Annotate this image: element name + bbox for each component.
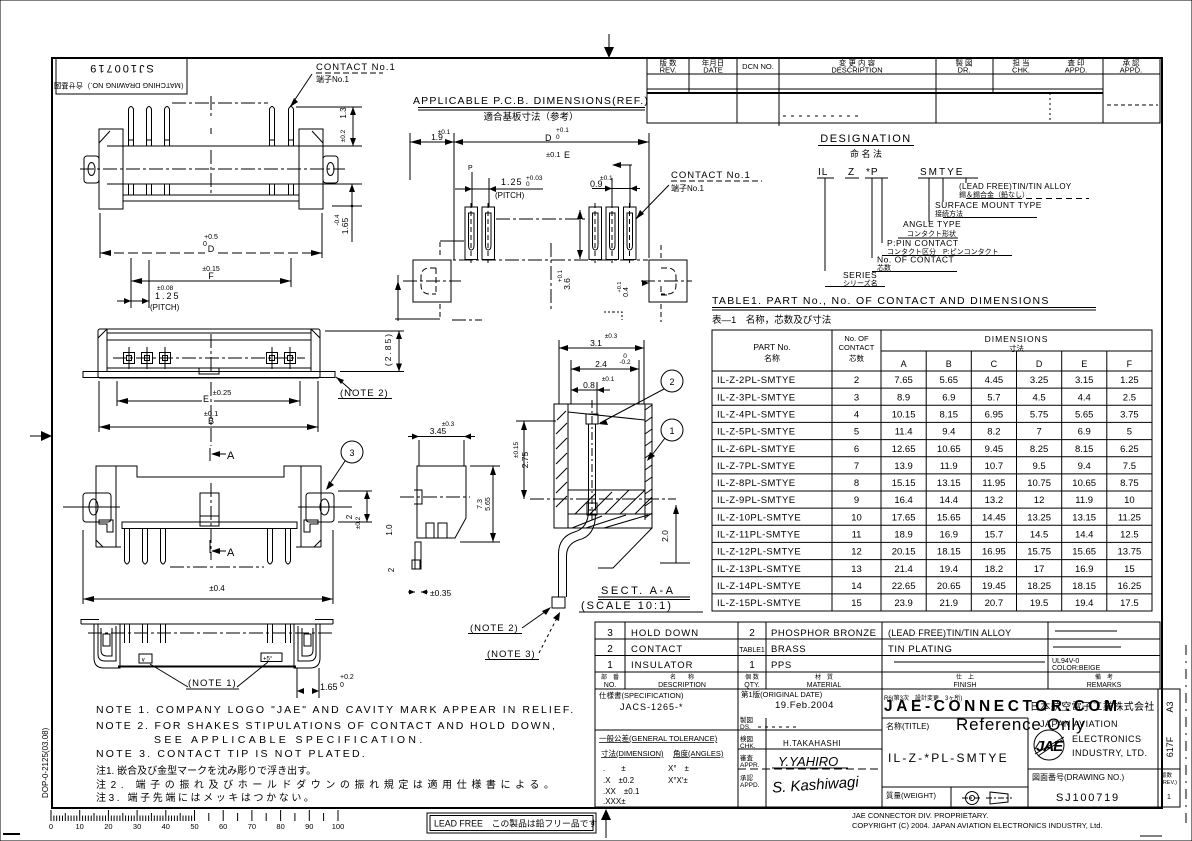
svg-text:IL-Z-9PL-SMTYE: IL-Z-9PL-SMTYE [717, 495, 795, 506]
pads [465, 203, 636, 263]
svg-text:寸法: 寸法 [1009, 343, 1025, 353]
svg-text:17.65: 17.65 [892, 512, 916, 523]
svg-text:(NOTE 2): (NOTE 2) [340, 388, 389, 399]
svg-text:接続方法: 接続方法 [935, 209, 963, 218]
svg-text:(NOTE 2): (NOTE 2) [470, 623, 519, 634]
svg-text:CONTACT No.1: CONTACT No.1 [671, 170, 751, 181]
svg-text:8.9: 8.9 [897, 392, 910, 403]
svg-text:-0.2: -0.2 [619, 359, 631, 366]
main box [554, 404, 652, 528]
svg-text:NOTE 3. CONTACT TIP IS NOT PLA: NOTE 3. CONTACT TIP IS NOT PLATED. [96, 748, 367, 760]
svg-text:(NOTE 1): (NOTE 1) [188, 678, 237, 689]
svg-text:15.7: 15.7 [985, 530, 1004, 541]
svg-text:7.3: 7.3 [477, 499, 484, 509]
svg-text:APPR.: APPR. [740, 762, 760, 769]
revision table (top right) [647, 58, 1160, 127]
svg-text:JACS-1265-*: JACS-1265-* [620, 702, 684, 712]
svg-text:2: 2 [749, 628, 755, 639]
svg-text:19.45: 19.45 [982, 581, 1006, 592]
left edge registration arrow [30, 435, 50, 437]
svg-text:10.15: 10.15 [892, 410, 916, 421]
svg-text:8.15: 8.15 [1075, 444, 1094, 455]
notes (bottom left) [96, 704, 575, 760]
svg-text:(NOTE 3): (NOTE 3) [487, 649, 536, 660]
svg-text:10.65: 10.65 [1072, 478, 1096, 489]
svg-text:IL-Z-5PL-SMTYE: IL-Z-5PL-SMTYE [717, 427, 795, 438]
svg-text:C: C [991, 359, 998, 369]
svg-text:製図: 製図 [740, 715, 753, 724]
svg-text:一般公差(GENERAL TOLERANCE): 一般公差(GENERAL TOLERANCE) [599, 733, 718, 743]
svg-text:19.4: 19.4 [1075, 598, 1094, 609]
E dim [116, 381, 118, 406]
svg-text:3: 3 [854, 392, 859, 403]
svg-text:(PITCH): (PITCH) [495, 191, 525, 200]
svg-text:NOTE 1. COMPANY LOGO "JAE" AND: NOTE 1. COMPANY LOGO "JAE" AND CAVITY MA… [96, 704, 575, 716]
ears [83, 493, 111, 522]
F dim [130, 258, 132, 287]
svg-text:SJ100719: SJ100719 [1056, 792, 1120, 804]
svg-text:FINISH: FINISH [954, 682, 977, 689]
svg-text:2: 2 [669, 377, 674, 387]
svg-text:(REV.): (REV.) [1161, 780, 1177, 786]
svg-text:±0.2: ±0.2 [355, 516, 362, 529]
svg-text:6.9: 6.9 [942, 392, 955, 403]
svg-text:10.65: 10.65 [937, 444, 961, 455]
svg-text:A: A [901, 359, 907, 369]
svg-text:B: B [208, 416, 214, 426]
svg-text:IL-Z-13PL-SMTYE: IL-Z-13PL-SMTYE [717, 564, 801, 575]
svg-text:TIN PLATING: TIN PLATING [888, 644, 953, 655]
inner shelf + hatch bottom [568, 489, 645, 491]
svg-text:23.9: 23.9 [894, 598, 913, 609]
svg-text:E: E [564, 150, 570, 160]
svg-text:2: 2 [854, 375, 859, 386]
svg-text:ELECTRONICS: ELECTRONICS [1072, 734, 1142, 744]
svg-text:JAE-CONNECTOR.COM: JAE-CONNECTOR.COM [884, 698, 1121, 715]
svg-text:11.9: 11.9 [940, 461, 958, 472]
svg-text:+0.2: +0.2 [340, 674, 354, 681]
svg-text:版数: 版数 [1161, 771, 1173, 779]
svg-text:70: 70 [248, 822, 256, 831]
svg-text:DESCRIPTION: DESCRIPTION [831, 66, 882, 75]
note2 leader [336, 377, 352, 391]
B dim [98, 381, 100, 432]
svg-text:DESCRIPTION: DESCRIPTION [658, 682, 706, 689]
svg-text:A3: A3 [1165, 701, 1175, 712]
svg-text:6.25: 6.25 [1120, 444, 1139, 455]
top center registration arrow [608, 34, 610, 56]
svg-text:+0.1: +0.1 [617, 282, 623, 293]
svg-text:10: 10 [1124, 495, 1135, 506]
svg-text:注1. 嵌合及び金型マークを沈み彫りで浮き出す。: 注1. 嵌合及び金型マークを沈み彫りで浮き出す。 [96, 764, 316, 777]
svg-text:命 名 法: 命 名 法 [850, 148, 882, 159]
svg-text:名 称: 名 称 [670, 673, 694, 681]
svg-text:IL-Z-14PL-SMTYE: IL-Z-14PL-SMTYE [717, 581, 801, 592]
svg-text:Reference Only: Reference Only [956, 715, 1085, 734]
svg-text:SECT. A-A: SECT. A-A [601, 585, 675, 597]
right dims [338, 490, 372, 492]
svg-text:21.4: 21.4 [894, 564, 913, 575]
svg-text:端子No.1: 端子No.1 [671, 183, 704, 193]
svg-text:ANGLE TYPE: ANGLE TYPE [903, 219, 961, 229]
svg-text:IL-Z-7PL-SMTYE: IL-Z-7PL-SMTYE [717, 461, 795, 472]
svg-text:INSULATOR: INSULATOR [631, 660, 694, 671]
svg-text:5.65: 5.65 [485, 497, 492, 511]
svg-text:2.75: 2.75 [520, 451, 530, 468]
contact no.1 leader [290, 74, 312, 107]
svg-text:±0.35: ±0.35 [430, 588, 451, 598]
svg-text:0: 0 [526, 181, 530, 188]
svg-text:3.45: 3.45 [430, 426, 447, 436]
svg-text:D: D [545, 133, 552, 143]
svg-text:DESIGNATION: DESIGNATION [820, 133, 911, 145]
svg-text:2.5: 2.5 [1123, 392, 1136, 403]
svg-text:11.4: 11.4 [895, 427, 913, 438]
svg-text:±0.3: ±0.3 [605, 333, 618, 340]
svg-text:11.9: 11.9 [1075, 495, 1093, 506]
svg-text:S. Kashiwagi: S. Kashiwagi [772, 774, 860, 797]
svg-text:HOLD DOWN: HOLD DOWN [631, 628, 699, 639]
svg-text:3.1: 3.1 [590, 338, 602, 348]
matching drawing no. box (rotated text, top-left) [56, 58, 187, 94]
svg-text:SURFACE MOUNT TYPE: SURFACE MOUNT TYPE [935, 200, 1042, 210]
svg-text:Z: Z [848, 167, 854, 178]
outline [96, 466, 321, 547]
svg-text:9: 9 [854, 495, 859, 506]
svg-text:H.TAKAHASHI: H.TAKAHASHI [783, 739, 841, 748]
svg-text:CONTACT No.1: CONTACT No.1 [316, 62, 396, 73]
svg-text:12: 12 [1034, 495, 1045, 506]
svg-text:承認: 承認 [740, 773, 754, 782]
svg-text:.XXX±: .XXX± [603, 797, 626, 806]
right dims [296, 106, 362, 108]
svg-text:18.15: 18.15 [1072, 581, 1096, 592]
svg-text:100: 100 [332, 822, 345, 831]
svg-text:1.3: 1.3 [339, 107, 348, 119]
svg-text:REV.: REV. [660, 66, 677, 75]
1.65 dim [296, 668, 298, 698]
svg-text:BRASS: BRASS [771, 644, 806, 655]
svg-text:16.9: 16.9 [1075, 564, 1094, 575]
leaders [824, 178, 826, 271]
A bottom [209, 540, 211, 553]
svg-text:LEAD FREE この製品は鉛フリー品です: LEAD FREE この製品は鉛フリー品です [434, 818, 597, 829]
svg-text:∨: ∨ [141, 658, 145, 664]
svg-text:+0.1: +0.1 [556, 127, 569, 134]
svg-text:注3. 端子先端にはメッキはつかない。: 注3. 端子先端にはメッキはつかない。 [96, 791, 317, 804]
svg-text:±0.1: ±0.1 [602, 376, 615, 383]
svg-text:IL-Z-*PL-SMTYE: IL-Z-*PL-SMTYE [888, 751, 1009, 765]
svg-text:COPYRIGHT (C) 2004. JAPAN AVIA: COPYRIGHT (C) 2004. JAPAN AVIATION ELECT… [852, 821, 1102, 830]
svg-text:6.9: 6.9 [1078, 427, 1091, 438]
svg-text:16.25: 16.25 [1118, 581, 1142, 592]
svg-text:TABLE1. PART No., No. OF CONTA: TABLE1. PART No., No. OF CONTACT AND DIM… [712, 295, 1050, 307]
svg-text:4: 4 [854, 410, 859, 421]
svg-text:F: F [208, 271, 214, 281]
svg-text:(2.85): (2.85) [383, 332, 393, 366]
svg-text:19.Feb.2004: 19.Feb.2004 [775, 700, 834, 711]
svg-text:1.65: 1.65 [320, 682, 338, 692]
svg-text:SEE APPLICABLE SPECIFICATION.: SEE APPLICABLE SPECIFICATION. [154, 734, 426, 746]
svg-text:D: D [208, 244, 215, 254]
svg-text:7.65: 7.65 [894, 375, 913, 386]
D dim [99, 213, 101, 258]
svg-text:20.65: 20.65 [937, 581, 961, 592]
svg-text:3.25: 3.25 [1030, 375, 1049, 386]
svg-text:APPD.: APPD. [740, 782, 760, 789]
svg-text:芯数: 芯数 [849, 353, 864, 363]
svg-text:18.25: 18.25 [1027, 581, 1051, 592]
svg-text:. ±: . ± [603, 764, 626, 773]
svg-text:13.25: 13.25 [1027, 512, 1051, 523]
svg-text:9.4: 9.4 [1078, 461, 1091, 472]
±0.4 dim [82, 530, 84, 604]
svg-text:6: 6 [854, 444, 859, 455]
svg-text:±0.15: ±0.15 [513, 442, 520, 459]
svg-text:15: 15 [1124, 564, 1135, 575]
svg-text:E: E [203, 394, 209, 404]
svg-text:11: 11 [852, 530, 862, 541]
svg-text:INDUSTRY, LTD.: INDUSTRY, LTD. [1072, 748, 1148, 758]
svg-text:3: 3 [349, 448, 354, 458]
svg-text:No. OF: No. OF [844, 334, 869, 343]
svg-text:質量(WEIGHT): 質量(WEIGHT) [886, 790, 936, 800]
svg-text:第1版(ORIGINAL DATE): 第1版(ORIGINAL DATE) [741, 689, 823, 699]
svg-text:18.15: 18.15 [937, 547, 961, 558]
svg-text:（MATCHING DRAWING NO.）合せ基図: （MATCHING DRAWING NO.）合せ基図 [54, 81, 188, 90]
svg-text:13: 13 [851, 564, 862, 575]
svg-text:JAE CONNECTOR DIV. PROPRIETARY: JAE CONNECTOR DIV. PROPRIETARY. [852, 811, 988, 820]
svg-text:13.15: 13.15 [1072, 512, 1096, 523]
svg-text:IL-Z-3PL-SMTYE: IL-Z-3PL-SMTYE [717, 392, 795, 403]
svg-text:0: 0 [340, 682, 344, 689]
lip [123, 194, 299, 196]
svg-text:0.8: 0.8 [583, 380, 595, 390]
svg-text:15.65: 15.65 [937, 512, 961, 523]
bar [122, 522, 297, 529]
balloon 3 [341, 441, 363, 463]
svg-text:21.9: 21.9 [940, 598, 959, 609]
svg-text:UL94V-0: UL94V-0 [1052, 658, 1079, 665]
ruler [49, 810, 344, 831]
svg-text:0: 0 [556, 134, 560, 141]
svg-text:30: 30 [133, 822, 141, 831]
lead free box [427, 813, 597, 833]
svg-text:IL-Z-10PL-SMTYE: IL-Z-10PL-SMTYE [717, 512, 801, 523]
svg-text:IL-Z-2PL-SMTYE: IL-Z-2PL-SMTYE [717, 375, 795, 386]
svg-text:1: 1 [1167, 794, 1171, 801]
svg-text:+0.1: +0.1 [558, 269, 564, 282]
right block [294, 624, 320, 668]
svg-text:-0.4: -0.4 [334, 214, 341, 226]
svg-text:DS.: DS. [740, 724, 751, 731]
svg-text:CHK.: CHK. [1012, 66, 1030, 75]
svg-text:18.9: 18.9 [894, 530, 913, 541]
JAE logo [1034, 730, 1064, 760]
svg-text:P:PIN CONTACT: P:PIN CONTACT [887, 238, 959, 248]
body [107, 145, 360, 147]
svg-text:端子No.1: 端子No.1 [316, 74, 349, 84]
svg-text:19.5: 19.5 [1030, 598, 1049, 609]
svg-text:11.95: 11.95 [982, 478, 1005, 489]
svg-text:JAE: JAE [1036, 738, 1064, 755]
svg-text:14.45: 14.45 [982, 512, 1006, 523]
svg-text:50: 50 [190, 822, 198, 831]
svg-text:14.4: 14.4 [1075, 530, 1094, 541]
svg-text:適合基板寸法（参考）: 適合基板寸法（参考） [483, 111, 578, 123]
svg-text:COLOR:BEIGE: COLOR:BEIGE [1052, 665, 1101, 672]
contact no1 leader [636, 185, 669, 219]
svg-text:5: 5 [854, 427, 859, 438]
svg-text:検図: 検図 [740, 734, 753, 743]
svg-text:15: 15 [851, 598, 862, 609]
svg-text:仕 上: 仕 上 [956, 673, 974, 681]
svg-text:90: 90 [305, 822, 313, 831]
svg-text:APPD.: APPD. [1120, 66, 1143, 75]
svg-text:5.7: 5.7 [987, 392, 1000, 403]
svg-text:(LEAD FREE)TIN/TIN ALLOY: (LEAD FREE)TIN/TIN ALLOY [959, 182, 1072, 191]
svg-text:PPS: PPS [771, 660, 792, 671]
svg-text:PHOSPHOR BRONZE: PHOSPHOR BRONZE [771, 628, 877, 639]
svg-text:3.75: 3.75 [1120, 410, 1139, 421]
svg-text:1.65: 1.65 [340, 217, 350, 234]
svg-text:寸法(DIMENSION): 寸法(DIMENSION) [601, 748, 664, 758]
svg-text:図面番号(DRAWING NO.): 図面番号(DRAWING NO.) [1032, 772, 1124, 782]
svg-text:QTY.: QTY. [744, 682, 759, 689]
svg-text:注2. 端子の振れ及びホールドダウンの振れ規定は適用仕様書に: 注2. 端子の振れ及びホールドダウンの振れ規定は適用仕様書による。 [96, 778, 559, 791]
svg-text:8.75: 8.75 [1120, 478, 1139, 489]
svg-text:617F: 617F [1165, 736, 1175, 757]
svg-text:10.7: 10.7 [985, 461, 1004, 472]
svg-text:1.25: 1.25 [501, 177, 523, 187]
svg-text:部 番: 部 番 [601, 673, 619, 681]
svg-text:2.0: 2.0 [660, 530, 670, 542]
svg-text:CONTACT: CONTACT [839, 343, 875, 352]
svg-text:15.65: 15.65 [1072, 547, 1096, 558]
svg-text:6.95: 6.95 [985, 410, 1004, 421]
svg-text:IL: IL [818, 167, 828, 178]
svg-text:14.5: 14.5 [1030, 530, 1049, 541]
svg-text:1.0: 1.0 [385, 524, 394, 536]
svg-text:10: 10 [76, 822, 84, 831]
svg-text:5.65: 5.65 [1075, 410, 1094, 421]
svg-text:4.4: 4.4 [1078, 392, 1091, 403]
svg-text:±0.2: ±0.2 [340, 129, 347, 142]
svg-text:1.25: 1.25 [1120, 375, 1139, 386]
svg-text:40: 40 [162, 822, 170, 831]
svg-text:(LEAD FREE)TIN/TIN ALLOY: (LEAD FREE)TIN/TIN ALLOY [888, 628, 1011, 638]
top dims [409, 133, 411, 180]
svg-text:IL-Z-6PL-SMTYE: IL-Z-6PL-SMTYE [717, 444, 795, 455]
svg-text:X°X′±: X°X′± [668, 776, 688, 785]
bottom arrow [605, 812, 607, 838]
svg-text:NO.: NO. [604, 682, 617, 689]
svg-text:7.5: 7.5 [1123, 461, 1136, 472]
svg-text:PART No.: PART No. [753, 342, 790, 352]
svg-text:材 質: 材 質 [815, 673, 833, 681]
svg-text:IL-Z-8PL-SMTYE: IL-Z-8PL-SMTYE [717, 478, 795, 489]
mating centerline [172, 102, 268, 104]
svg-text:8.15: 8.15 [940, 410, 959, 421]
svg-text:0: 0 [203, 241, 207, 248]
svg-text:2: 2 [607, 644, 613, 655]
pin [586, 414, 598, 424]
lower box [595, 689, 1180, 807]
svg-text:IL-Z-12PL-SMTYE: IL-Z-12PL-SMTYE [717, 547, 801, 558]
right dim [492, 466, 494, 542]
svg-text:DATE: DATE [703, 66, 722, 75]
svg-text:13.75: 13.75 [1118, 547, 1142, 558]
svg-text:APPLICABLE P.C.B. DIMENSIONS(R: APPLICABLE P.C.B. DIMENSIONS(REF.) [413, 95, 649, 107]
svg-text:18.2: 18.2 [985, 564, 1004, 575]
svg-text:3.15: 3.15 [1075, 375, 1094, 386]
svg-text:4.5: 4.5 [1032, 392, 1045, 403]
svg-text:1: 1 [749, 660, 755, 671]
svg-text:IL-Z-4PL-SMTYE: IL-Z-4PL-SMTYE [717, 410, 795, 421]
svg-text:5.75: 5.75 [1030, 410, 1049, 421]
svg-text:CHK.: CHK. [740, 743, 756, 750]
svg-text:P: P [468, 165, 473, 172]
svg-text:REMARKS: REMARKS [1087, 682, 1122, 689]
svg-text:2: 2 [387, 567, 396, 572]
svg-text:16.95: 16.95 [982, 547, 1006, 558]
svg-text:17: 17 [1034, 564, 1045, 575]
svg-text:7: 7 [1036, 427, 1041, 438]
svg-text:10.75: 10.75 [1027, 478, 1051, 489]
svg-text:SERIES: SERIES [843, 270, 877, 280]
svg-text:DCN NO.: DCN NO. [742, 62, 774, 71]
svg-text:0.4: 0.4 [623, 287, 630, 297]
svg-text:20: 20 [104, 822, 112, 831]
svg-text:X° ±: X° ± [668, 764, 690, 773]
svg-text:8.2: 8.2 [987, 427, 1000, 438]
svg-text:1: 1 [669, 426, 674, 436]
svg-text:名称(TITLE): 名称(TITLE) [886, 721, 929, 731]
parts list [595, 622, 1160, 689]
svg-text:17.5: 17.5 [1120, 598, 1139, 609]
svg-text:個 数: 個 数 [745, 673, 759, 681]
svg-text:1.9: 1.9 [431, 132, 443, 142]
contacts [124, 347, 296, 369]
svg-text:7: 7 [854, 461, 859, 472]
svg-text:15.15: 15.15 [892, 478, 916, 489]
balloons [661, 370, 683, 392]
svg-text:NOTE 2. FOR SHAKES STIPULATION: NOTE 2. FOR SHAKES STIPULATIONS OF CONTA… [96, 720, 557, 732]
svg-text:±0.25: ±0.25 [213, 388, 232, 397]
svg-text:IL-Z-11PL-SMTYE: IL-Z-11PL-SMTYE [717, 530, 800, 541]
svg-text:10: 10 [851, 512, 862, 523]
svg-text:(PITCH): (PITCH) [150, 303, 180, 312]
svg-text:(SCALE 10:1): (SCALE 10:1) [581, 600, 673, 612]
svg-text:±0.4: ±0.4 [209, 584, 225, 593]
lead [559, 510, 589, 597]
svg-text:DIMENSIONS: DIMENSIONS [985, 334, 1049, 344]
svg-text:.X ±0.2: .X ±0.2 [603, 776, 635, 785]
svg-text:DR.: DR. [958, 66, 971, 75]
bottom-left scan artifact [3, 833, 20, 835]
svg-text:表―1 名称，芯数及び寸法: 表―1 名称，芯数及び寸法 [712, 314, 831, 326]
svg-text:16.9: 16.9 [940, 530, 959, 541]
svg-text:13.2: 13.2 [985, 495, 1004, 506]
svg-text:錫＆錫合金（鉛なし）: 錫＆錫合金（鉛なし） [959, 190, 1029, 199]
2.85 rotated (left view col) [383, 332, 393, 366]
svg-text:コンタクト形状: コンタクト形状 [907, 229, 956, 238]
svg-text:3: 3 [607, 628, 613, 639]
svg-text:DOP-0-2125(03.08): DOP-0-2125(03.08) [41, 727, 50, 798]
svg-text:Y.YAHIRO: Y.YAHIRO [778, 754, 838, 769]
svg-text:+5°: +5° [263, 657, 273, 663]
pins up [125, 624, 291, 643]
